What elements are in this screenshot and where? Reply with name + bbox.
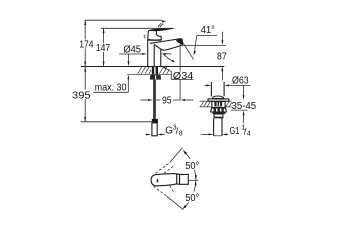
dim 174 vertical [84,20,86,66]
lower dashed inner edge [170,186,175,194]
395 bottom ref line [81,121,155,123]
mounting nut [150,75,161,80]
svg-text:35-45: 35-45 [232,101,257,112]
dim 147 top ref line [101,27,173,29]
svg-text:Ø34: Ø34 [173,71,194,82]
faucet body column left edge [147,40,149,67]
max 30 arrows [128,54,130,62]
nut shadow band [213,112,226,114]
deck line [81,66,224,68]
handle dark tick [157,179,159,183]
basin hatch right [226,101,232,106]
tailpipe [213,118,215,135]
waste cap dome [212,96,224,99]
svg-text:50°: 50° [185,193,199,204]
text 174 [78,39,95,48]
lever dark nose [150,28,177,31]
svg-text:95: 95 [162,96,172,107]
body rect top view [180,174,189,184]
pop-up waste: upper pipe [210,82,212,96]
text 147 [94,43,111,52]
svg-text:41°: 41° [201,25,215,36]
body right vertical [160,49,162,66]
spray arc under spout [163,54,172,61]
dim 174 top ref line [85,19,162,21]
basin section top/bottom lines [200,100,212,102]
dim 147 vertical [103,28,105,66]
flexible hose [153,80,156,119]
basin hatch left [200,101,210,106]
dim 395 vertical [84,67,86,122]
dim O34 leader [164,68,171,72]
dim 35-45 [243,85,245,95]
svg-text:50°: 50° [185,161,199,172]
body mid vertical [153,45,155,67]
body top edge [148,39,162,41]
lever handle cap [148,30,162,40]
arrow at right end of 174 line [162,21,167,23]
dim 87 [221,32,223,41]
upper solid ray [170,148,183,163]
deck bottom line [127,73,171,75]
G3/8 thread [152,123,157,136]
G 1 1/4 label [201,133,211,135]
svg-text:4: 4 [247,130,251,137]
collar ring [214,114,223,117]
body center dark block with slits [214,102,222,107]
lever back crescent [144,35,145,39]
diagonal extension marks from lever tip [158,23,161,27]
clamp nut [211,108,227,112]
centerline right [189,179,199,181]
waste body through basin [212,101,225,107]
dim 95 [140,99,150,101]
spout top edge [150,39,180,44]
svg-text:395: 395 [72,90,91,101]
G 3/8 label [146,134,148,136]
svg-text:87: 87 [217,52,227,63]
svg-text:147: 147 [96,43,111,54]
hose fitting nut [152,119,158,123]
top view: handle pill [151,174,177,186]
spout dark beak tip [176,39,183,45]
41 deg direction line [181,40,193,60]
lower solid ray [166,196,183,210]
upper 50 deg arc [184,151,196,180]
svg-text:174: 174 [79,39,94,50]
waste flange [208,99,229,101]
svg-text:Ø63: Ø63 [232,76,249,87]
lower 50 deg arc [185,181,196,207]
basin bottom edge under body [212,106,226,109]
lever front face line [156,31,161,36]
dim O63 [205,84,209,86]
deck hatch right [159,67,169,74]
shank below deck (two thread bars) [152,67,154,75]
lower dashed handle edge [153,186,166,196]
deck hatch left [138,67,151,74]
upper dashed handle edge [156,163,170,174]
spout beak and underside [154,39,182,51]
svg-text:G1: G1 [230,126,240,137]
50 deg texts [184,159,200,170]
extension line from spout tip down to 95 dim [179,44,181,100]
svg-text:8: 8 [179,131,183,138]
handle neck [177,174,180,184]
upper dashed inner edge [164,165,175,173]
